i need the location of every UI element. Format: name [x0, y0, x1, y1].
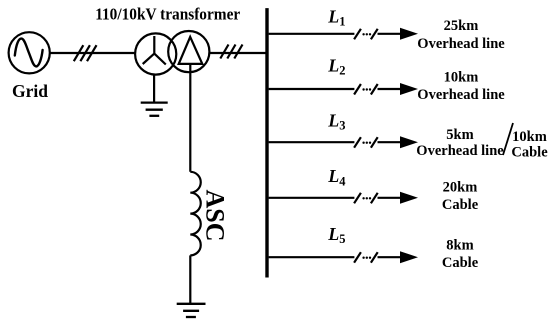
svg-text:8km: 8km [446, 238, 473, 254]
feeder L2 wire (bus side) [269, 88, 355, 90]
wire transformer to busbar [209, 52, 265, 54]
slash marks (grid side) [74, 45, 97, 61]
feeder L1 wire (bus side) [269, 33, 355, 35]
svg-text:110/10kV transformer: 110/10kV transformer [95, 5, 240, 24]
wire delta to ASC coil [189, 64, 191, 172]
svg-text:L2: L2 [327, 55, 345, 77]
svg-text:Cable: Cable [511, 145, 548, 161]
feeder L4 break slash 2 [371, 193, 378, 204]
svg-text:L1: L1 [327, 6, 345, 28]
feeder L2 break slash 2 [371, 84, 378, 95]
feeder L4 wire (arrow side) [378, 197, 401, 199]
feeder L4 break dots [362, 197, 371, 199]
feeder L1 break dots [362, 33, 371, 35]
feeder L2 wire (arrow side) [378, 88, 401, 90]
feeder L5 wire (bus side) [269, 256, 355, 258]
svg-text:Overhead line: Overhead line [417, 36, 505, 52]
svg-text:5km: 5km [446, 127, 473, 143]
feeder L2 break dots [362, 88, 371, 90]
AC source G (Grid) circle [9, 32, 50, 73]
feeder L3 arrowhead [400, 136, 418, 148]
ground (transformer neutral) [141, 103, 168, 116]
feeder L3 break slash 1 [354, 137, 361, 148]
feeder L1 break slash 2 [371, 29, 378, 40]
feeder L5 break slash 1 [354, 252, 361, 263]
wire ASC to ground [189, 255, 191, 303]
svg-text:L5: L5 [327, 224, 345, 246]
svg-text:Overhead line: Overhead line [416, 143, 504, 159]
svg-text:Overhead line: Overhead line [417, 87, 505, 103]
ground (ASC) [177, 304, 206, 317]
feeder L2 arrowhead [400, 83, 418, 95]
feeder L5 break dots [362, 257, 371, 259]
feeder L3 break dots [362, 142, 371, 144]
feeder L3 break slash 2 [371, 137, 378, 148]
svg-text:10km: 10km [444, 70, 479, 86]
transformer T1 primary winding circle [135, 33, 176, 74]
feeder L5 arrowhead [400, 251, 418, 263]
separator slash (L3) [503, 123, 513, 155]
feeder L3 wire (bus side) [269, 141, 355, 143]
feeder L1 break slash 1 [354, 29, 361, 40]
feeder L4 wire (bus side) [269, 197, 355, 199]
svg-text:L3: L3 [327, 110, 345, 132]
feeder L4 arrowhead [400, 192, 418, 204]
feeder L3 wire (arrow side) [378, 141, 401, 143]
feeder L1 arrowhead [400, 28, 418, 40]
transformer T1 secondary winding circle [168, 31, 209, 72]
svg-text:25km: 25km [444, 18, 479, 34]
feeder L1 wire (arrow side) [378, 33, 401, 35]
transformer T1 delta symbol [179, 37, 203, 64]
svg-text:Cable: Cable [442, 255, 479, 271]
svg-text:ASC: ASC [201, 189, 230, 241]
svg-text:Grid: Grid [12, 81, 48, 101]
svg-text:10km: 10km [512, 129, 547, 145]
transformer T1 wye symbol [143, 36, 166, 65]
feeder L5 break slash 2 [371, 252, 378, 263]
wire transformer neutral to ground [153, 75, 155, 103]
wire grid to transformer [50, 52, 135, 54]
svg-text:Cable: Cable [442, 197, 479, 213]
feeder L4 break slash 1 [354, 193, 361, 204]
feeder L2 break slash 1 [354, 84, 361, 95]
AC source sine wave [15, 39, 43, 67]
svg-text:20km: 20km [443, 180, 478, 196]
inductor ASC coil [190, 172, 200, 256]
feeder L5 wire (arrow side) [378, 256, 401, 258]
svg-text:L4: L4 [327, 166, 346, 188]
slash marks (busbar side) [220, 45, 242, 59]
busbar [265, 8, 268, 277]
